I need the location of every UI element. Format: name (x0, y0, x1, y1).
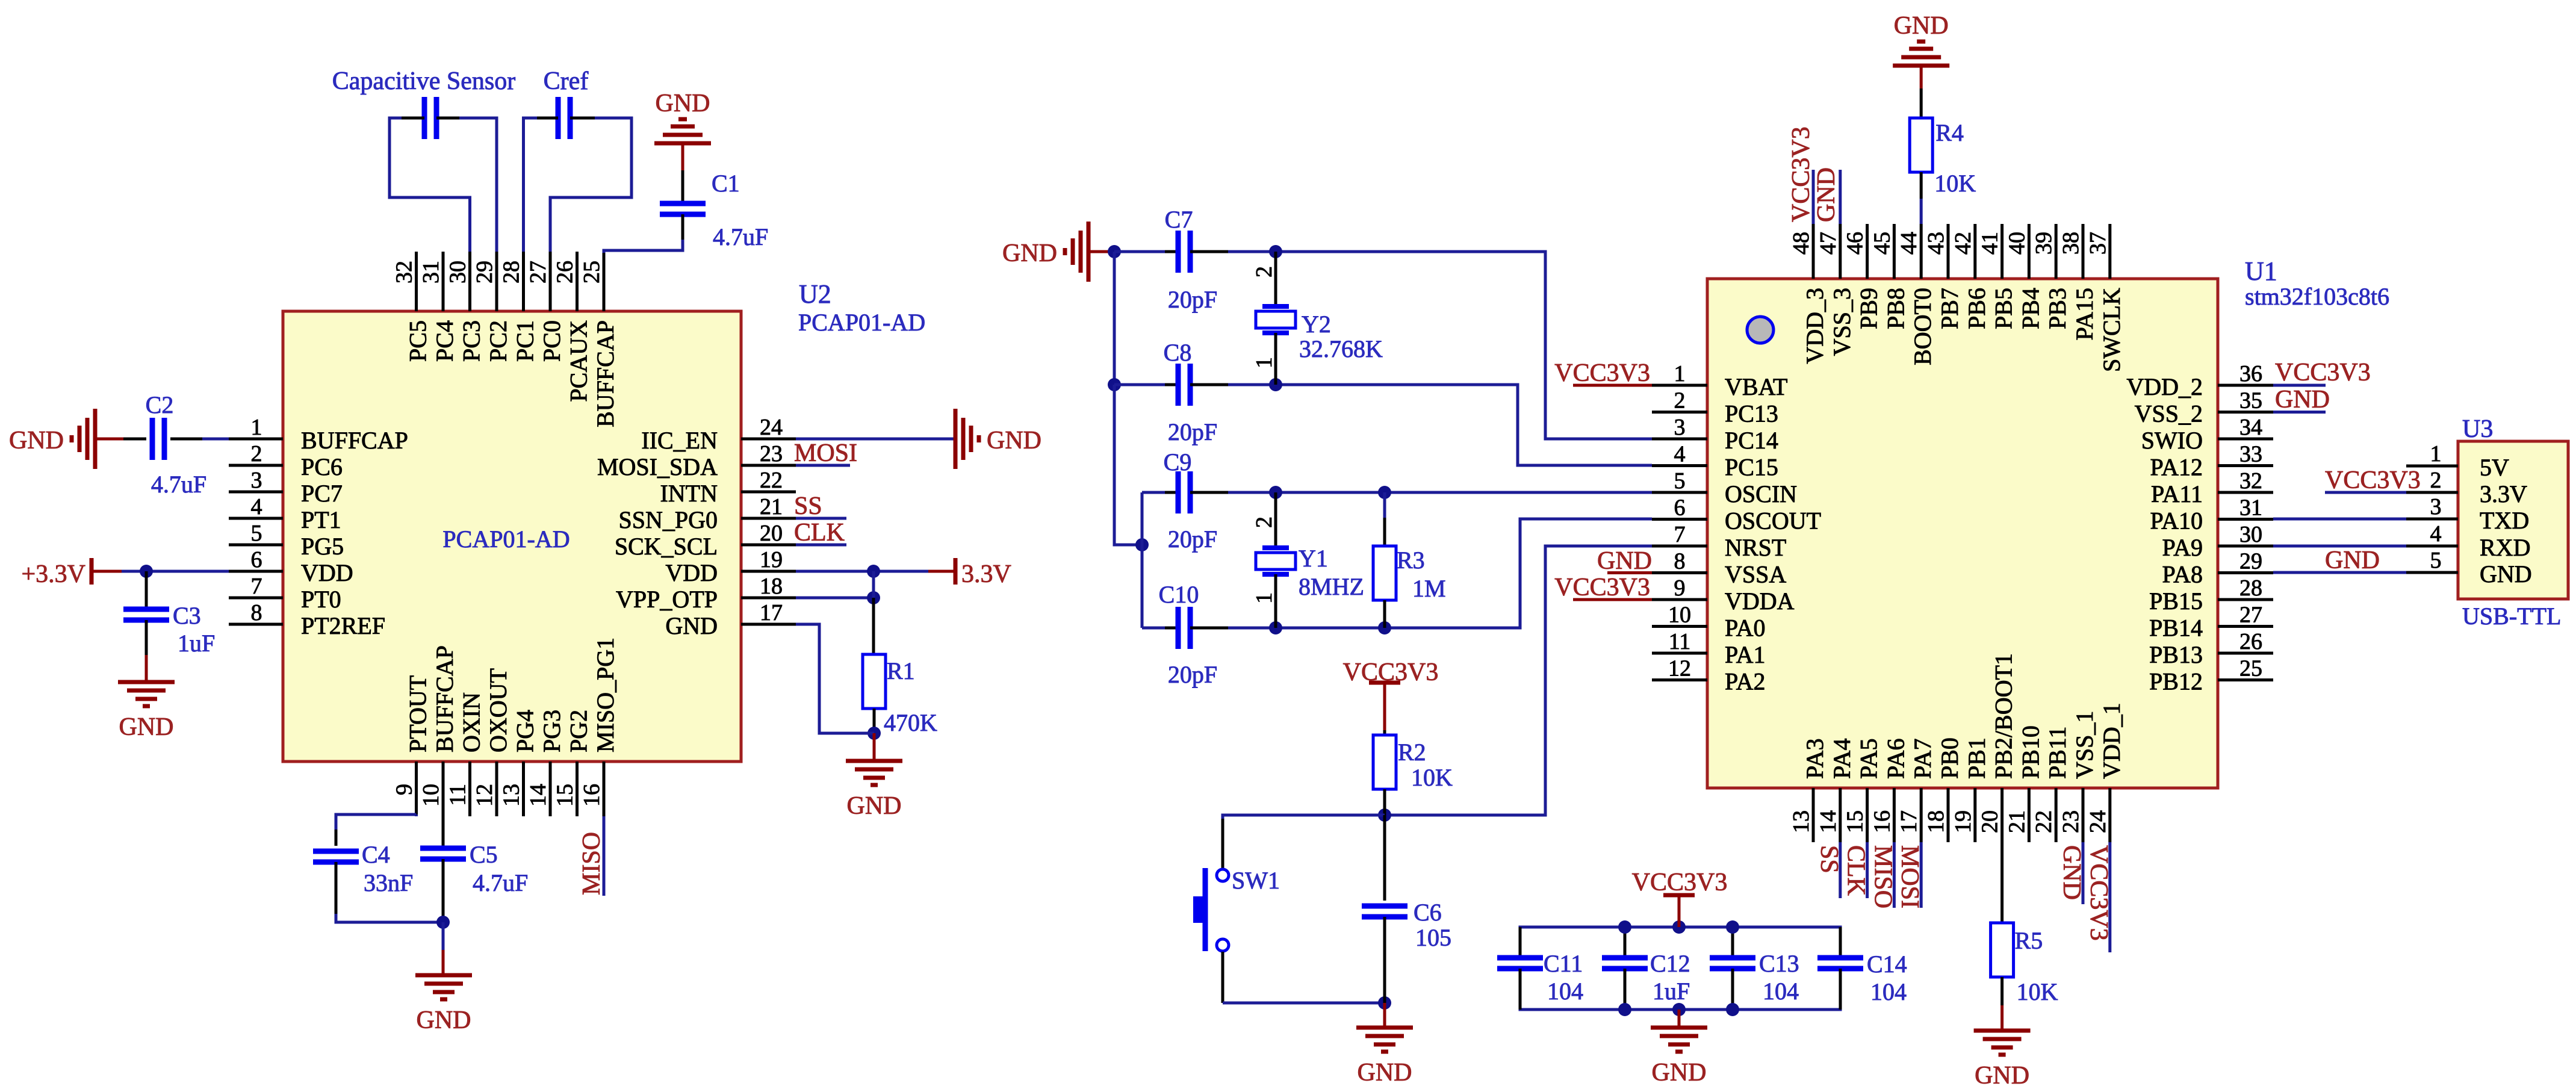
svg-text:PB14: PB14 (2149, 615, 2203, 642)
svg-text:GND: GND (656, 90, 710, 117)
svg-text:5: 5 (1674, 468, 1686, 494)
svg-text:PC1: PC1 (512, 320, 539, 362)
svg-text:28: 28 (2239, 575, 2262, 601)
svg-text:PB1: PB1 (1963, 737, 1990, 779)
svg-text:14: 14 (526, 784, 551, 807)
svg-text:3.3V: 3.3V (961, 560, 1011, 588)
svg-text:VSSA: VSSA (1725, 561, 1786, 588)
svg-text:105: 105 (1415, 924, 1451, 951)
svg-text:C13: C13 (1759, 950, 1799, 977)
svg-text:PA10: PA10 (2150, 507, 2203, 535)
svg-text:GND: GND (2275, 386, 2330, 414)
svg-text:GND: GND (2325, 547, 2380, 574)
svg-text:PC5: PC5 (405, 320, 432, 362)
svg-text:VCC3V3: VCC3V3 (1554, 359, 1650, 387)
svg-text:1: 1 (1252, 357, 1277, 368)
svg-text:VDD: VDD (665, 559, 718, 586)
svg-text:25: 25 (579, 261, 604, 284)
svg-text:PG2: PG2 (565, 710, 592, 752)
svg-text:6: 6 (1674, 495, 1686, 521)
svg-text:11: 11 (445, 784, 471, 806)
svg-text:35: 35 (2239, 388, 2262, 414)
svg-text:OXOUT: OXOUT (485, 668, 512, 752)
svg-text:PB10: PB10 (2017, 725, 2044, 779)
svg-text:PA3: PA3 (1801, 739, 1828, 779)
svg-text:7: 7 (1674, 522, 1686, 547)
svg-text:IIC_EN: IIC_EN (641, 427, 718, 454)
svg-text:48: 48 (1789, 232, 1814, 255)
svg-text:33: 33 (2239, 442, 2262, 467)
svg-text:PC4: PC4 (431, 320, 458, 362)
svg-text:GND: GND (119, 713, 174, 741)
svg-text:26: 26 (553, 261, 578, 284)
svg-text:1: 1 (1674, 361, 1686, 386)
svg-text:30: 30 (2239, 522, 2262, 547)
svg-text:SWCLK: SWCLK (2098, 288, 2125, 372)
svg-text:PB7: PB7 (1936, 288, 1963, 329)
svg-text:GND: GND (665, 612, 718, 639)
svg-text:20pF: 20pF (1168, 661, 1217, 688)
svg-text:470K: 470K (884, 709, 937, 736)
svg-text:VBAT: VBAT (1725, 373, 1787, 400)
svg-text:28: 28 (499, 261, 524, 284)
svg-text:Capacitive Sensor: Capacitive Sensor (332, 67, 515, 95)
svg-text:R2: R2 (1398, 739, 1426, 766)
svg-text:20: 20 (760, 521, 783, 546)
svg-text:SW1: SW1 (1232, 867, 1280, 894)
svg-text:PA11: PA11 (2151, 480, 2203, 507)
svg-text:C1: C1 (712, 170, 740, 197)
svg-text:MISO: MISO (578, 832, 606, 895)
svg-text:10K: 10K (1934, 170, 1976, 197)
svg-text:4: 4 (251, 494, 262, 520)
svg-text:PCAUX: PCAUX (565, 320, 592, 402)
svg-text:C5: C5 (470, 841, 498, 868)
svg-text:104: 104 (1763, 978, 1799, 1005)
svg-text:32.768K: 32.768K (1299, 335, 1383, 362)
svg-text:PA6: PA6 (1882, 739, 1909, 779)
svg-text:8MHZ: 8MHZ (1299, 573, 1364, 600)
svg-text:PC13: PC13 (1725, 400, 1778, 427)
svg-text:1: 1 (251, 415, 262, 440)
svg-text:21: 21 (760, 494, 783, 520)
svg-text:32: 32 (392, 261, 417, 284)
svg-text:23: 23 (2058, 810, 2084, 833)
svg-text:1: 1 (1252, 592, 1277, 604)
svg-text:MOSI: MOSI (794, 439, 857, 467)
svg-text:30: 30 (445, 261, 471, 284)
svg-text:4: 4 (1674, 442, 1686, 467)
svg-text:2: 2 (1674, 388, 1686, 414)
svg-text:VDDA: VDDA (1725, 588, 1795, 615)
svg-text:1: 1 (2430, 441, 2442, 467)
svg-text:PA2: PA2 (1725, 668, 1765, 695)
svg-text:PG5: PG5 (301, 533, 344, 560)
svg-text:31: 31 (2239, 495, 2262, 521)
svg-text:5V: 5V (2480, 454, 2509, 481)
svg-text:GND: GND (847, 792, 902, 820)
svg-text:29: 29 (472, 261, 497, 284)
svg-text:OSCIN: OSCIN (1725, 480, 1797, 507)
svg-text:104: 104 (1547, 978, 1583, 1005)
svg-text:6: 6 (251, 547, 262, 572)
svg-text:C14: C14 (1867, 951, 1907, 978)
svg-text:20: 20 (1978, 810, 2003, 833)
svg-text:C4: C4 (362, 841, 390, 868)
svg-text:1M: 1M (1412, 575, 1446, 602)
svg-text:29: 29 (2239, 549, 2262, 574)
svg-text:PB12: PB12 (2149, 668, 2203, 695)
svg-text:U3: U3 (2462, 415, 2493, 443)
svg-text:TXD: TXD (2480, 507, 2529, 534)
svg-text:R3: R3 (1397, 547, 1425, 574)
svg-text:5: 5 (2430, 548, 2442, 573)
svg-text:PB13: PB13 (2149, 641, 2203, 668)
svg-text:2: 2 (2430, 468, 2442, 493)
svg-text:44: 44 (1896, 232, 1922, 255)
svg-text:C9: C9 (1164, 448, 1192, 476)
svg-text:25: 25 (2239, 656, 2262, 681)
svg-text:PB6: PB6 (1963, 288, 1990, 329)
svg-text:GND: GND (2058, 845, 2085, 900)
svg-text:11: 11 (1669, 629, 1691, 654)
svg-text:VSS_2: VSS_2 (2135, 400, 2203, 427)
svg-text:19: 19 (760, 547, 783, 572)
svg-text:GND: GND (1002, 240, 1057, 267)
svg-text:PT2REF: PT2REF (301, 612, 385, 639)
svg-text:PG4: PG4 (512, 710, 539, 752)
svg-text:SCK_SCL: SCK_SCL (615, 533, 718, 560)
svg-text:Y2: Y2 (1302, 311, 1331, 338)
svg-text:PC7: PC7 (301, 480, 343, 507)
svg-text:INTN: INTN (660, 480, 718, 507)
svg-text:5: 5 (251, 521, 262, 546)
svg-text:104: 104 (1870, 978, 1907, 1005)
svg-text:R5: R5 (2015, 927, 2043, 954)
svg-text:12: 12 (1668, 656, 1691, 681)
svg-text:BOOT0: BOOT0 (1909, 288, 1936, 365)
svg-text:GND: GND (1358, 1059, 1412, 1087)
svg-text:VPP_OTP: VPP_OTP (616, 586, 718, 613)
svg-text:PTOUT: PTOUT (405, 675, 432, 752)
svg-text:20pF: 20pF (1168, 418, 1217, 445)
svg-text:27: 27 (526, 261, 551, 284)
svg-text:PA12: PA12 (2150, 454, 2203, 481)
svg-text:VDD_3: VDD_3 (1801, 288, 1828, 364)
svg-text:PCAP01-AD: PCAP01-AD (442, 526, 570, 553)
svg-text:PB4: PB4 (2017, 288, 2044, 329)
svg-text:24: 24 (760, 415, 783, 440)
svg-text:20pF: 20pF (1168, 526, 1217, 553)
svg-text:1uF: 1uF (1653, 978, 1690, 1005)
svg-text:PB9: PB9 (1855, 288, 1882, 329)
svg-text:Y1: Y1 (1299, 545, 1328, 572)
svg-text:C8: C8 (1164, 339, 1192, 366)
svg-text:MOSI: MOSI (1896, 845, 1923, 908)
svg-text:PA5: PA5 (1855, 739, 1882, 779)
svg-text:CLK: CLK (794, 519, 845, 547)
svg-text:PA15: PA15 (2071, 288, 2098, 340)
svg-text:32: 32 (2239, 468, 2262, 494)
svg-text:VCC3V3: VCC3V3 (1632, 869, 1728, 896)
svg-text:RXD: RXD (2480, 534, 2530, 561)
svg-text:GND: GND (9, 427, 64, 454)
svg-text:GND: GND (1597, 547, 1652, 575)
svg-text:16: 16 (1869, 810, 1895, 833)
svg-text:VDD: VDD (301, 559, 353, 586)
svg-text:VDD_1: VDD_1 (2098, 703, 2125, 779)
svg-text:2: 2 (1252, 517, 1277, 528)
svg-text:40: 40 (2004, 232, 2029, 255)
svg-text:20pF: 20pF (1168, 286, 1217, 313)
svg-text:VCC3V3: VCC3V3 (1787, 126, 1815, 222)
svg-text:MISO_PG1: MISO_PG1 (592, 638, 619, 752)
svg-text:PB3: PB3 (2044, 288, 2071, 329)
svg-text:47: 47 (1816, 232, 1841, 255)
svg-text:PA7: PA7 (1909, 739, 1936, 779)
svg-text:12: 12 (472, 784, 497, 807)
svg-text:GND: GND (1894, 12, 1949, 40)
svg-text:PA9: PA9 (2162, 534, 2203, 561)
svg-text:39: 39 (2031, 232, 2056, 255)
svg-text:24: 24 (2085, 810, 2111, 833)
svg-text:OXIN: OXIN (458, 692, 485, 752)
svg-text:7: 7 (251, 574, 262, 599)
svg-text:PB15: PB15 (2149, 588, 2203, 615)
svg-text:SWIO: SWIO (2141, 427, 2203, 454)
svg-text:10K: 10K (2017, 978, 2058, 1005)
svg-text:PC14: PC14 (1725, 427, 1778, 454)
svg-text:PC15: PC15 (1725, 454, 1778, 481)
svg-text:33nF: 33nF (364, 869, 413, 896)
svg-text:GND: GND (987, 427, 1041, 454)
svg-text:27: 27 (2239, 603, 2262, 628)
svg-text:R1: R1 (887, 657, 915, 684)
svg-text:MISO: MISO (1869, 845, 1896, 908)
svg-text:GND: GND (2480, 560, 2532, 588)
svg-text:2: 2 (251, 441, 262, 467)
svg-text:2: 2 (1252, 266, 1277, 278)
svg-text:10: 10 (418, 784, 444, 807)
svg-text:SS: SS (1815, 845, 1843, 873)
svg-text:9: 9 (392, 784, 417, 795)
svg-text:3: 3 (2430, 494, 2442, 520)
svg-text:SS: SS (794, 492, 822, 520)
svg-text:+3.3V: +3.3V (21, 560, 85, 588)
svg-text:C11: C11 (1544, 950, 1583, 977)
svg-text:C7: C7 (1165, 206, 1193, 233)
svg-text:13: 13 (499, 784, 524, 807)
svg-text:PC6: PC6 (301, 453, 343, 480)
svg-text:PB11: PB11 (2044, 727, 2071, 779)
svg-text:4.7uF: 4.7uF (713, 223, 768, 250)
svg-text:CLK: CLK (1842, 845, 1870, 896)
svg-text:PCAP01-AD: PCAP01-AD (798, 309, 925, 336)
svg-text:9: 9 (1674, 575, 1686, 601)
svg-text:PB5: PB5 (1990, 288, 2017, 329)
svg-text:22: 22 (2031, 810, 2056, 833)
svg-text:OSCOUT: OSCOUT (1725, 507, 1821, 535)
svg-text:18: 18 (1923, 810, 1949, 833)
svg-text:4: 4 (2430, 521, 2442, 547)
svg-text:PT1: PT1 (301, 506, 341, 533)
svg-text:4.7uF: 4.7uF (473, 869, 528, 896)
svg-text:VDD_2: VDD_2 (2126, 373, 2203, 400)
svg-text:MOSI_SDA: MOSI_SDA (597, 453, 718, 480)
svg-text:BUFFCAP: BUFFCAP (431, 645, 458, 752)
svg-text:VCC3V3: VCC3V3 (1554, 574, 1650, 601)
svg-text:PB8: PB8 (1882, 288, 1909, 329)
svg-text:17: 17 (1896, 810, 1922, 833)
svg-text:PA0: PA0 (1725, 615, 1765, 642)
svg-text:22: 22 (760, 468, 783, 493)
svg-text:43: 43 (1923, 232, 1949, 255)
svg-text:GND: GND (1652, 1059, 1707, 1087)
svg-text:R4: R4 (1935, 119, 1964, 146)
svg-text:38: 38 (2058, 232, 2084, 255)
svg-text:23: 23 (760, 441, 783, 467)
svg-text:15: 15 (1843, 810, 1868, 833)
svg-text:C12: C12 (1650, 950, 1690, 977)
svg-text:37: 37 (2085, 232, 2111, 255)
svg-text:3: 3 (1674, 415, 1686, 440)
svg-text:VCC3V3: VCC3V3 (2325, 467, 2421, 494)
svg-text:26: 26 (2239, 629, 2262, 654)
svg-text:8: 8 (251, 600, 262, 625)
svg-text:PA8: PA8 (2162, 561, 2203, 588)
svg-text:C10: C10 (1159, 581, 1199, 608)
svg-text:34: 34 (2239, 415, 2262, 440)
svg-text:14: 14 (1816, 810, 1841, 833)
svg-text:C6: C6 (1414, 899, 1442, 926)
svg-text:10: 10 (1668, 603, 1691, 628)
svg-text:3: 3 (251, 468, 262, 493)
svg-text:42: 42 (1951, 232, 1976, 255)
svg-text:3.3V: 3.3V (2480, 480, 2527, 507)
svg-text:VSS_3: VSS_3 (1828, 288, 1855, 356)
svg-text:GND: GND (1813, 167, 1840, 222)
svg-text:46: 46 (1843, 232, 1868, 255)
svg-text:Cref: Cref (544, 67, 589, 95)
svg-text:U2: U2 (799, 279, 831, 309)
svg-text:18: 18 (760, 574, 783, 599)
svg-text:stm32f103c8t6: stm32f103c8t6 (2245, 283, 2389, 310)
svg-text:GND: GND (417, 1007, 471, 1034)
svg-text:BUFFCAP: BUFFCAP (592, 320, 619, 427)
svg-text:PC3: PC3 (458, 320, 485, 362)
svg-text:19: 19 (1951, 810, 1976, 833)
svg-text:VSS_1: VSS_1 (2071, 711, 2098, 779)
svg-text:16: 16 (579, 784, 604, 807)
svg-text:PG3: PG3 (538, 710, 565, 752)
svg-text:45: 45 (1869, 232, 1895, 255)
svg-text:41: 41 (1978, 232, 2003, 255)
svg-text:36: 36 (2239, 361, 2262, 386)
svg-text:USB-TTL: USB-TTL (2462, 603, 2561, 630)
svg-text:PA1: PA1 (1725, 641, 1765, 668)
svg-text:PC0: PC0 (538, 320, 565, 362)
svg-text:PT0: PT0 (301, 586, 341, 613)
svg-text:NRST: NRST (1725, 534, 1786, 561)
svg-text:4.7uF: 4.7uF (151, 471, 206, 498)
svg-text:PC2: PC2 (485, 320, 512, 362)
svg-text:VCC3V3: VCC3V3 (2085, 845, 2112, 941)
svg-text:10K: 10K (1411, 764, 1453, 791)
svg-text:31: 31 (418, 261, 444, 284)
svg-text:SSN_PG0: SSN_PG0 (618, 506, 718, 533)
svg-text:VCC3V3: VCC3V3 (2275, 359, 2371, 386)
svg-text:C2: C2 (146, 391, 174, 418)
svg-text:GND: GND (1975, 1062, 2029, 1090)
svg-text:PB0: PB0 (1936, 737, 1963, 779)
svg-text:17: 17 (760, 600, 783, 625)
svg-text:21: 21 (2004, 810, 2029, 833)
svg-text:1uF: 1uF (178, 630, 215, 657)
svg-text:13: 13 (1789, 810, 1814, 833)
svg-text:8: 8 (1674, 549, 1686, 574)
svg-text:15: 15 (553, 784, 578, 807)
svg-text:C3: C3 (173, 602, 201, 629)
svg-text:PA4: PA4 (1828, 739, 1855, 779)
svg-text:PB2/BOOT1: PB2/BOOT1 (1990, 653, 2017, 779)
svg-text:BUFFCAP: BUFFCAP (301, 427, 408, 454)
svg-text:U1: U1 (2245, 256, 2277, 286)
